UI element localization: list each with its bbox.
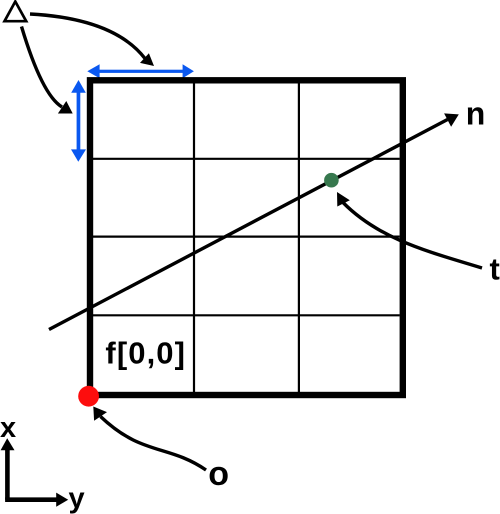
blue vertical spacing arrow <box>71 80 86 162</box>
curved arrow from o label to red dot <box>101 417 207 471</box>
arrowhead of o arrow <box>93 407 107 421</box>
red dot o <box>78 386 99 407</box>
arrowhead of delta-to-horizontal arrow <box>140 53 154 66</box>
grid thin horizontal line 1 <box>93 158 400 160</box>
arrowhead of t arrow <box>337 192 350 207</box>
curved arrow from t label to green dot <box>343 203 482 269</box>
blue horizontal spacing arrow <box>87 64 194 78</box>
curved arrow from delta to horizontal spacing arrow <box>30 14 145 59</box>
svg-text:x: x <box>0 412 16 444</box>
axis x arrow <box>5 450 10 500</box>
curved arrow from delta to vertical spacing arrow <box>22 27 63 108</box>
svg-text:o: o <box>208 455 229 493</box>
svg-text:t: t <box>490 252 500 287</box>
arrowhead of delta-to-vertical arrow <box>58 101 73 114</box>
green dot t <box>324 173 339 188</box>
svg-text:f[0,0]: f[0,0] <box>105 336 186 371</box>
grid thin horizontal line 3 <box>93 314 400 316</box>
grid thin horizontal line 2 <box>93 236 400 238</box>
svg-text:n: n <box>466 95 486 131</box>
arrowhead of n <box>444 113 459 126</box>
grid thin vertical line 2 <box>298 84 300 393</box>
svg-text:y: y <box>69 483 85 514</box>
grid thick border <box>90 80 403 395</box>
axis y arrow <box>5 497 57 502</box>
grid thin vertical line 1 <box>193 84 195 393</box>
diagonal line n <box>49 120 448 330</box>
delta symbol <box>5 2 27 22</box>
